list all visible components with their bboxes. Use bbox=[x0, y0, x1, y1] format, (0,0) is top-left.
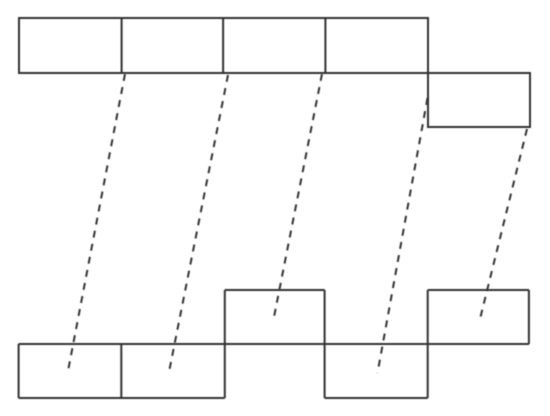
bottom lower edge left segment bbox=[19, 397, 225, 399]
dashed mapping line 4 bbox=[378, 98, 428, 373]
top row divider 3 bbox=[324, 18, 326, 73]
top row divider 2 bbox=[222, 18, 224, 73]
right offset block bbox=[428, 73, 530, 127]
dashed mapping line 1 bbox=[68, 74, 125, 371]
dashed mapping line 2 bbox=[169, 75, 228, 372]
bottom vertical at x=225 bbox=[224, 290, 226, 398]
bottom lower edge middle segment bbox=[325, 397, 428, 399]
bottom vertical right outer bbox=[528, 290, 530, 344]
bottom vertical left outer bbox=[18, 344, 20, 398]
dashed mapping line 3 bbox=[274, 74, 322, 317]
bottom vertical at x=428 bbox=[427, 290, 429, 398]
bottom vertical at x=325 bbox=[324, 290, 326, 398]
top row outer rectangle bbox=[19, 18, 428, 73]
dashed mapping line 5 bbox=[480, 129, 527, 319]
top row divider 1 bbox=[121, 18, 123, 73]
bottom long horizontal line bbox=[19, 343, 529, 345]
raised block top edge middle bbox=[225, 289, 325, 291]
raised block top edge right bbox=[428, 289, 529, 291]
bottom vertical divider bbox=[120, 344, 122, 398]
